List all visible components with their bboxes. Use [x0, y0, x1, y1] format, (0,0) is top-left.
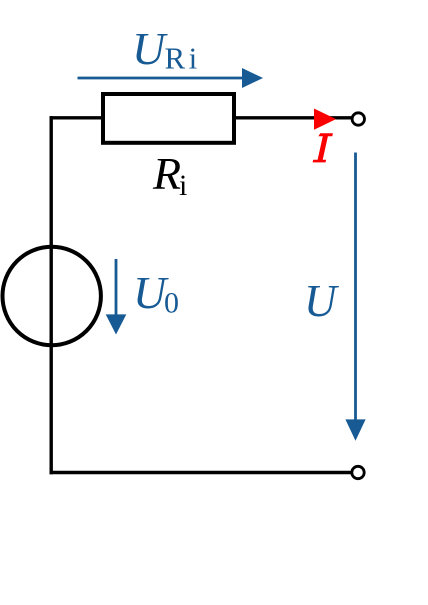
- terminal node (bottom right): [352, 466, 364, 478]
- svg-text:R: R: [152, 148, 181, 199]
- voltage arrow U0 (blue, vertical, next to source): [106, 259, 127, 335]
- svg-text:Ri: Ri: [165, 41, 201, 76]
- resistor Ri: [103, 94, 234, 143]
- voltage arrow U_Ri (blue, horizontal): [78, 68, 264, 88]
- terminal node (top right): [352, 113, 364, 125]
- svg-text:U: U: [304, 276, 339, 326]
- voltage arrow U (blue, vertical, right side): [345, 153, 365, 441]
- label I (red): [313, 133, 333, 162]
- wire: top right horizontal (resistor to terminal): [234, 116, 352, 119]
- svg-text:0: 0: [164, 287, 179, 320]
- current arrow I (red): [314, 109, 336, 130]
- wire: top left horizontal (source to resistor): [50, 116, 104, 119]
- wire: left vertical branch: [50, 116, 53, 474]
- svg-text:U: U: [132, 23, 168, 74]
- svg-text:i: i: [179, 169, 187, 202]
- voltage source U0 (ideal source circle): [3, 247, 101, 345]
- wire: bottom horizontal: [50, 471, 352, 474]
